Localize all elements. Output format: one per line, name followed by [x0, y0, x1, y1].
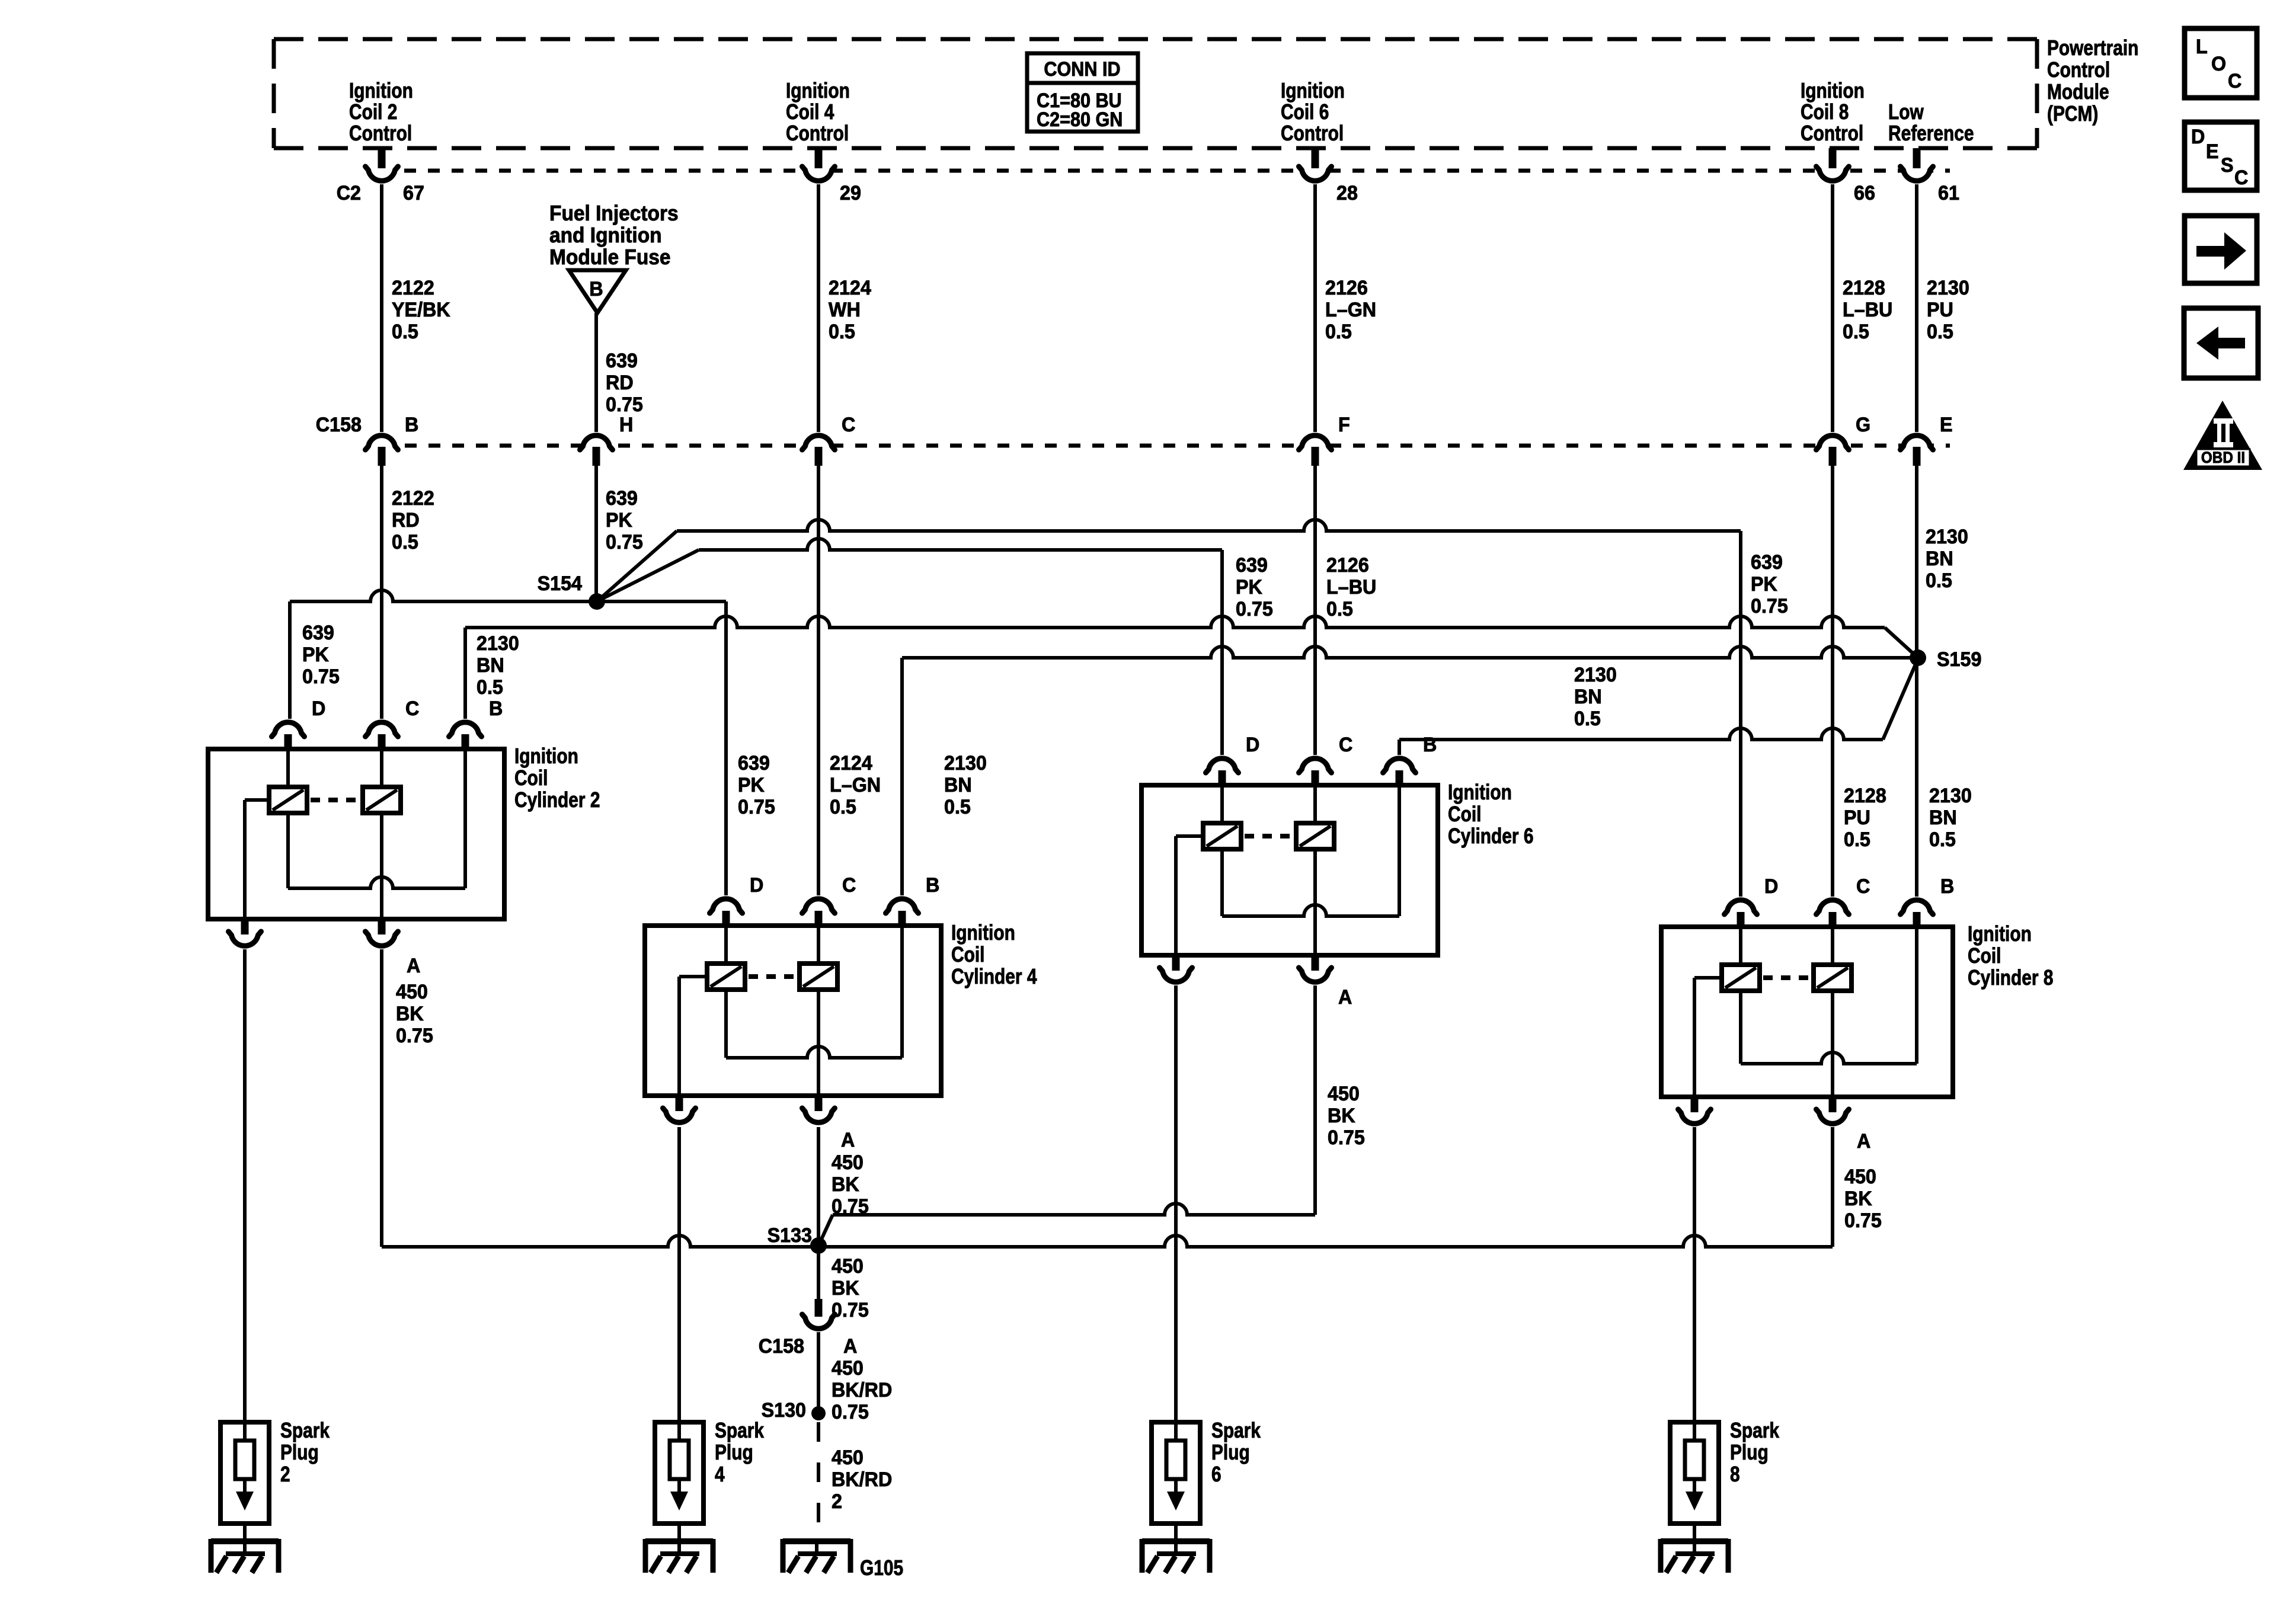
svg-text:Coil: Coil: [951, 943, 984, 966]
svg-text:0.5: 0.5: [1574, 708, 1601, 730]
svg-text:BK: BK: [1844, 1188, 1872, 1210]
svg-text:Reference: Reference: [1888, 121, 1974, 145]
svg-text:Coil 8: Coil 8: [1801, 100, 1849, 124]
svg-text:Plug: Plug: [1211, 1441, 1250, 1464]
svg-text:S: S: [2221, 154, 2234, 177]
svg-text:0.75: 0.75: [832, 1401, 869, 1423]
svg-text:450: 450: [396, 981, 428, 1003]
svg-text:Cylinder 8: Cylinder 8: [1968, 966, 2053, 990]
svg-text:Spark: Spark: [715, 1419, 765, 1442]
svg-text:C158: C158: [316, 414, 362, 436]
svg-text:0.75: 0.75: [606, 393, 643, 416]
svg-text:S133: S133: [768, 1224, 812, 1247]
svg-text:2122: 2122: [392, 487, 434, 510]
svg-text:O: O: [2211, 53, 2226, 75]
svg-text:OBD II: OBD II: [2201, 449, 2245, 466]
svg-text:639: 639: [1236, 554, 1268, 577]
svg-text:C: C: [1339, 734, 1352, 756]
svg-text:Powertrain: Powertrain: [2047, 36, 2138, 60]
svg-text:C: C: [2228, 70, 2241, 92]
svg-text:H: H: [619, 414, 633, 436]
svg-text:BK: BK: [832, 1277, 859, 1300]
svg-text:450: 450: [832, 1446, 864, 1469]
svg-text:2128: 2128: [1844, 785, 1886, 807]
svg-text:G105: G105: [860, 1556, 903, 1580]
svg-text:2126: 2126: [1325, 277, 1368, 299]
svg-text:0.5: 0.5: [1929, 828, 1956, 851]
svg-text:66: 66: [1854, 182, 1875, 204]
svg-text:PU: PU: [1844, 806, 1870, 829]
svg-text:Ignition: Ignition: [1968, 922, 2032, 946]
svg-text:B: B: [405, 414, 418, 436]
svg-text:PU: PU: [1927, 299, 1953, 321]
svg-text:C2: C2: [337, 182, 361, 204]
svg-text:0.5: 0.5: [1927, 321, 1953, 343]
svg-text:Low: Low: [1888, 100, 1924, 124]
svg-text:0.75: 0.75: [832, 1299, 869, 1321]
svg-text:G: G: [1856, 414, 1870, 436]
svg-text:Cylinder 4: Cylinder 4: [951, 965, 1037, 988]
svg-text:0.5: 0.5: [829, 321, 855, 343]
svg-text:BN: BN: [944, 774, 972, 796]
svg-text:2130: 2130: [1929, 785, 1972, 807]
svg-text:D: D: [1764, 875, 1778, 898]
svg-text:RD: RD: [606, 372, 634, 394]
svg-text:E: E: [1940, 414, 1953, 436]
svg-text:28: 28: [1336, 182, 1358, 204]
svg-text:Module Fuse: Module Fuse: [549, 246, 671, 269]
svg-text:B: B: [589, 278, 603, 300]
svg-text:L–GN: L–GN: [830, 774, 881, 796]
svg-text:0.75: 0.75: [396, 1025, 433, 1047]
svg-text:0.75: 0.75: [738, 796, 775, 818]
svg-text:L: L: [2196, 36, 2208, 58]
svg-text:Control: Control: [1281, 121, 1344, 145]
svg-text:450: 450: [832, 1357, 864, 1380]
svg-text:PK: PK: [606, 509, 632, 532]
svg-text:2126: 2126: [1326, 554, 1369, 577]
svg-text:CONN ID: CONN ID: [1044, 58, 1120, 81]
svg-text:and Ignition: and Ignition: [549, 224, 662, 247]
svg-text:L–GN: L–GN: [1325, 299, 1376, 321]
svg-text:Coil: Coil: [1968, 944, 2001, 968]
svg-text:BN: BN: [1926, 548, 1953, 570]
svg-text:450: 450: [1844, 1166, 1876, 1188]
svg-text:B: B: [1423, 734, 1437, 756]
svg-text:2130: 2130: [944, 752, 987, 775]
svg-text:0.5: 0.5: [830, 796, 856, 818]
svg-text:2: 2: [832, 1490, 842, 1513]
svg-text:639: 639: [606, 487, 638, 510]
svg-text:639: 639: [1751, 551, 1783, 574]
svg-text:Coil: Coil: [514, 766, 548, 790]
svg-text:0.75: 0.75: [302, 665, 340, 688]
svg-text:BK/RD: BK/RD: [832, 1468, 892, 1491]
svg-text:0.5: 0.5: [477, 676, 503, 699]
svg-text:C: C: [2234, 167, 2248, 189]
svg-text:639: 639: [606, 350, 638, 372]
svg-text:WH: WH: [829, 299, 861, 321]
svg-text:Cylinder 2: Cylinder 2: [514, 788, 600, 812]
svg-text:Control: Control: [349, 121, 412, 145]
svg-text:2130: 2130: [1927, 277, 1969, 299]
svg-text:Plug: Plug: [280, 1441, 319, 1464]
svg-text:2122: 2122: [392, 277, 434, 299]
svg-text:Plug: Plug: [715, 1441, 753, 1464]
svg-text:BK/RD: BK/RD: [832, 1379, 892, 1401]
svg-text:2: 2: [280, 1462, 290, 1486]
svg-text:C: C: [842, 414, 855, 436]
svg-text:0.75: 0.75: [1844, 1209, 1882, 1232]
svg-text:61: 61: [1938, 182, 1959, 204]
svg-text:L–BU: L–BU: [1843, 299, 1892, 321]
svg-text:0.5: 0.5: [392, 531, 418, 553]
svg-text:S154: S154: [538, 572, 583, 595]
svg-text:Fuel Injectors: Fuel Injectors: [549, 202, 679, 225]
svg-text:Coil 4: Coil 4: [786, 100, 834, 124]
svg-text:BN: BN: [1929, 806, 1957, 829]
svg-text:Ignition: Ignition: [951, 921, 1015, 945]
svg-text:450: 450: [832, 1151, 864, 1174]
svg-text:PK: PK: [1236, 576, 1262, 599]
svg-text:0.5: 0.5: [392, 321, 418, 343]
svg-text:639: 639: [302, 622, 334, 644]
svg-text:RD: RD: [392, 509, 420, 532]
svg-text:Coil 2: Coil 2: [349, 100, 397, 124]
svg-text:BK: BK: [396, 1003, 424, 1025]
svg-text:Plug: Plug: [1730, 1441, 1769, 1464]
svg-text:L–BU: L–BU: [1326, 576, 1376, 599]
svg-text:C: C: [405, 697, 419, 720]
svg-text:450: 450: [832, 1255, 864, 1278]
svg-text:BN: BN: [477, 654, 504, 677]
svg-text:Control: Control: [2047, 58, 2110, 82]
svg-text:YE/BK: YE/BK: [392, 299, 450, 321]
svg-text:Ignition: Ignition: [1801, 79, 1865, 103]
svg-text:8: 8: [1730, 1462, 1740, 1486]
svg-text:Coil: Coil: [1448, 802, 1481, 826]
svg-text:450: 450: [1328, 1083, 1360, 1105]
svg-text:0.5: 0.5: [1325, 321, 1352, 343]
svg-text:0.75: 0.75: [1236, 598, 1273, 620]
svg-text:Module: Module: [2047, 80, 2109, 104]
svg-text:Ignition: Ignition: [514, 744, 578, 768]
svg-text:A: A: [407, 955, 420, 977]
svg-text:Control: Control: [1801, 121, 1863, 145]
svg-text:S130: S130: [762, 1399, 806, 1422]
svg-text:0.5: 0.5: [1844, 828, 1870, 851]
svg-text:A: A: [1338, 986, 1352, 1009]
svg-text:639: 639: [738, 752, 770, 775]
svg-text:E: E: [2206, 140, 2219, 163]
svg-text:Spark: Spark: [1730, 1419, 1780, 1442]
svg-text:D: D: [2191, 126, 2205, 148]
svg-text:Control: Control: [786, 121, 849, 145]
svg-text:0.5: 0.5: [944, 796, 971, 818]
svg-text:B: B: [926, 874, 939, 897]
svg-text:67: 67: [403, 182, 424, 204]
svg-text:2130: 2130: [1926, 526, 1968, 548]
svg-text:6: 6: [1211, 1462, 1221, 1486]
svg-text:A: A: [1857, 1130, 1870, 1153]
svg-text:A: A: [841, 1129, 855, 1151]
svg-text:S159: S159: [1937, 648, 1981, 671]
svg-text:Spark: Spark: [1211, 1419, 1261, 1442]
svg-text:2130: 2130: [1574, 664, 1617, 686]
svg-text:Ignition: Ignition: [1448, 780, 1512, 804]
svg-text:PK: PK: [1751, 573, 1777, 596]
svg-text:PK: PK: [738, 774, 765, 796]
svg-text:0.5: 0.5: [1843, 321, 1869, 343]
svg-text:Coil 6: Coil 6: [1281, 100, 1329, 124]
svg-text:C2=80 GN: C2=80 GN: [1037, 108, 1123, 131]
svg-text:(PCM): (PCM): [2047, 102, 2098, 126]
svg-text:Spark: Spark: [280, 1419, 330, 1442]
svg-text:D: D: [312, 697, 325, 720]
svg-text:Cylinder 6: Cylinder 6: [1448, 824, 1533, 848]
svg-text:D: D: [750, 874, 763, 897]
svg-text:BK: BK: [832, 1173, 859, 1196]
svg-text:F: F: [1338, 414, 1350, 436]
svg-text:BK: BK: [1328, 1105, 1355, 1127]
svg-text:Ignition: Ignition: [1281, 79, 1345, 103]
svg-text:B: B: [489, 697, 503, 720]
svg-text:2128: 2128: [1843, 277, 1885, 299]
svg-text:0.5: 0.5: [1926, 569, 1952, 592]
svg-text:29: 29: [840, 182, 861, 204]
svg-text:BN: BN: [1574, 686, 1602, 708]
svg-text:C158: C158: [759, 1335, 804, 1358]
svg-text:4: 4: [715, 1462, 725, 1486]
svg-text:PK: PK: [302, 644, 329, 666]
svg-text:0.75: 0.75: [1328, 1126, 1365, 1149]
svg-text:0.5: 0.5: [1326, 598, 1353, 620]
svg-text:0.75: 0.75: [1751, 595, 1788, 617]
svg-text:B: B: [1940, 875, 1954, 898]
svg-text:0.75: 0.75: [606, 531, 643, 553]
svg-text:A: A: [843, 1335, 857, 1358]
svg-text:C: C: [842, 874, 856, 897]
svg-text:Ignition: Ignition: [349, 79, 413, 103]
svg-text:2124: 2124: [829, 277, 871, 299]
svg-text:C: C: [1856, 875, 1870, 898]
svg-text:2130: 2130: [477, 632, 519, 655]
svg-text:2124: 2124: [830, 752, 872, 775]
svg-text:Ignition: Ignition: [786, 79, 850, 103]
svg-text:D: D: [1246, 734, 1259, 756]
